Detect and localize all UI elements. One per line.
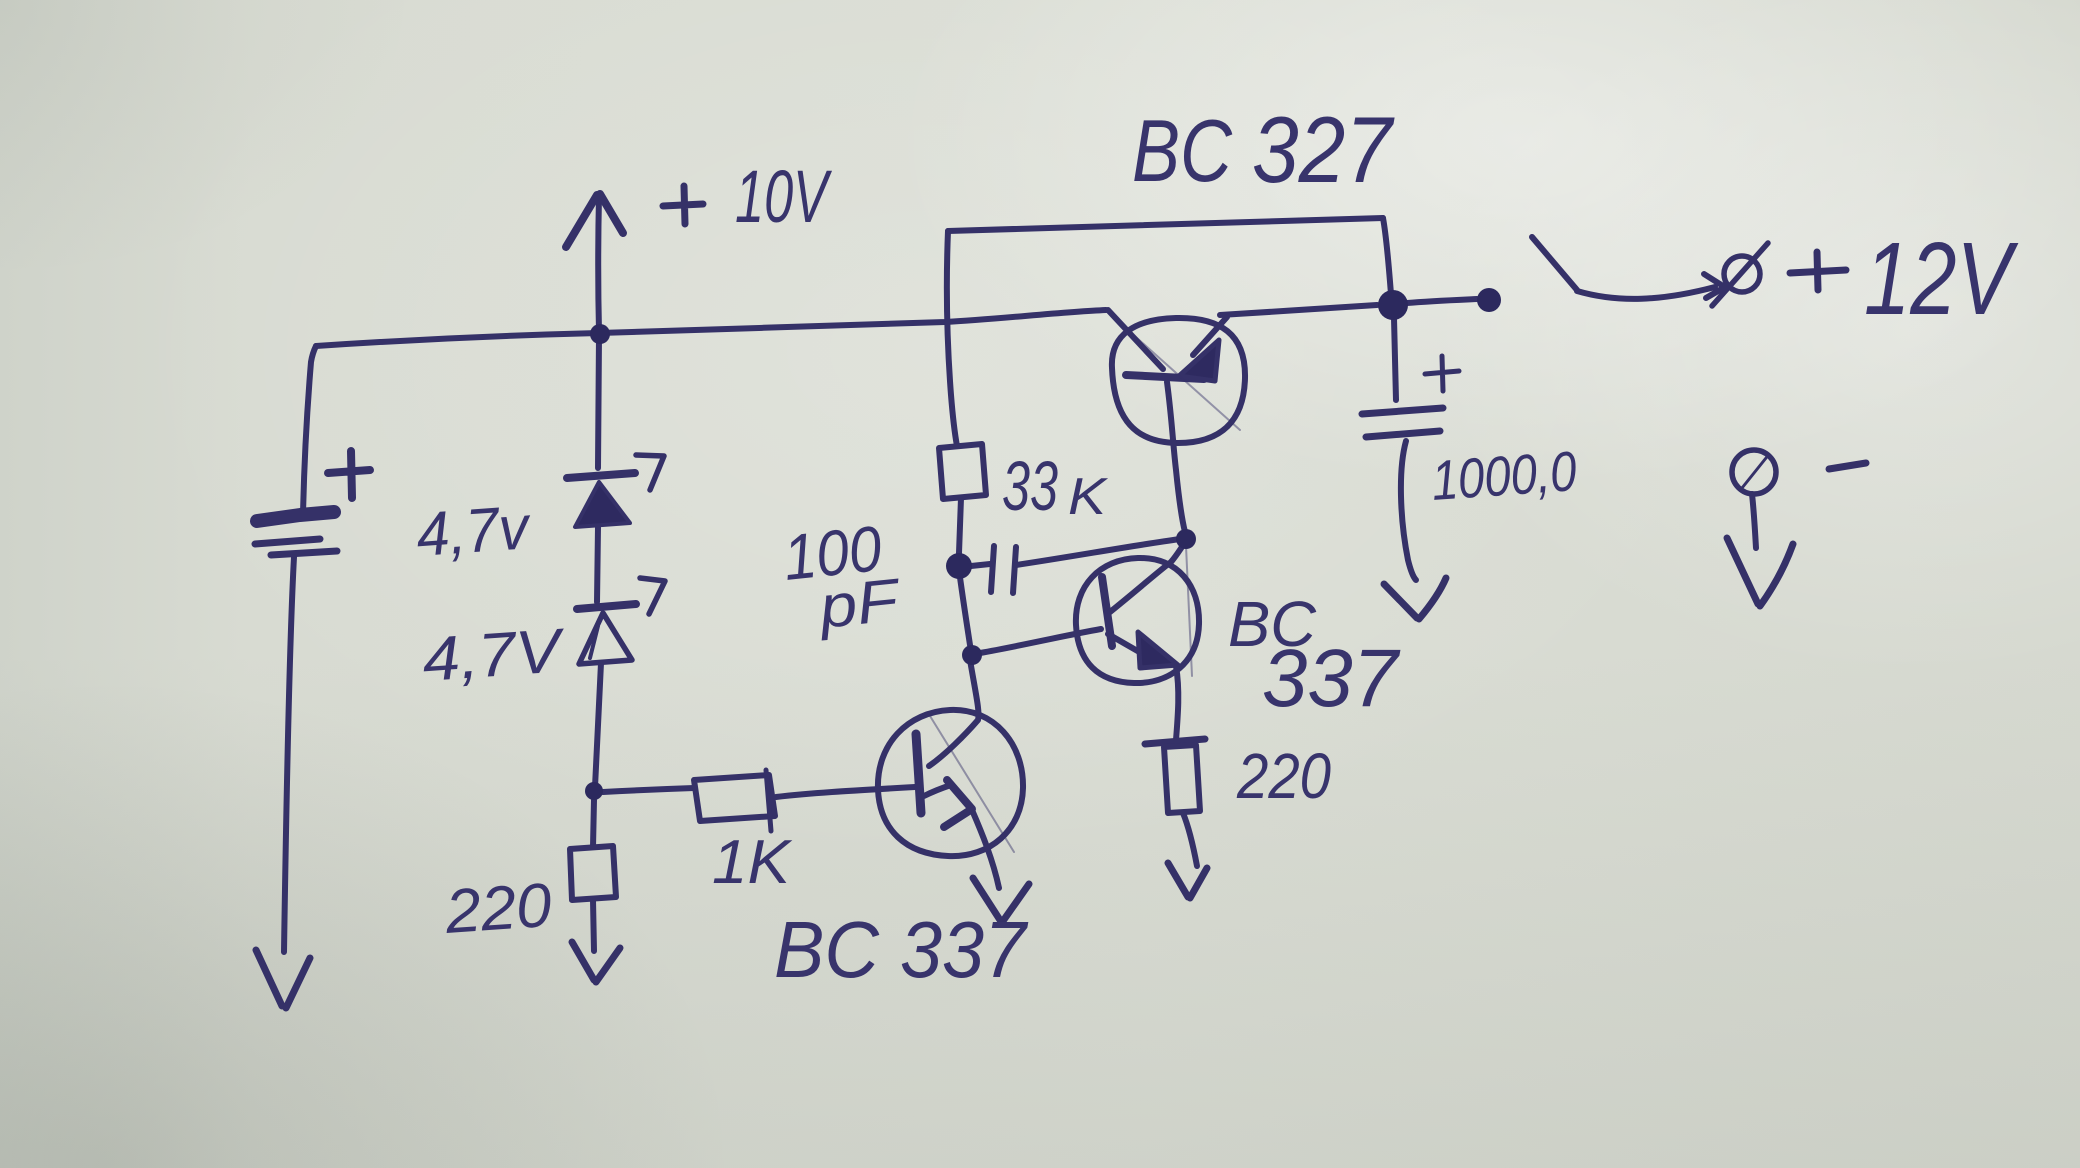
svg-text:220: 220 <box>442 871 554 947</box>
svg-text:220: 220 <box>1236 740 1331 812</box>
svg-text:4,7v: 4,7v <box>414 493 533 570</box>
svg-text:337: 337 <box>1262 633 1401 724</box>
svg-text:33: 33 <box>1002 447 1058 525</box>
svg-text:4,7V: 4,7V <box>420 616 569 695</box>
svg-text:327: 327 <box>1252 97 1395 202</box>
svg-text:12V: 12V <box>1864 221 2019 336</box>
svg-text:pF: pF <box>814 566 904 641</box>
svg-text:10V: 10V <box>735 155 833 238</box>
svg-text:K: K <box>1068 468 1109 526</box>
svg-text:BC: BC <box>1132 101 1233 200</box>
svg-text:BC 337: BC 337 <box>774 905 1028 994</box>
svg-text:1000,0: 1000,0 <box>1429 439 1578 512</box>
svg-text:1K: 1K <box>712 828 793 897</box>
